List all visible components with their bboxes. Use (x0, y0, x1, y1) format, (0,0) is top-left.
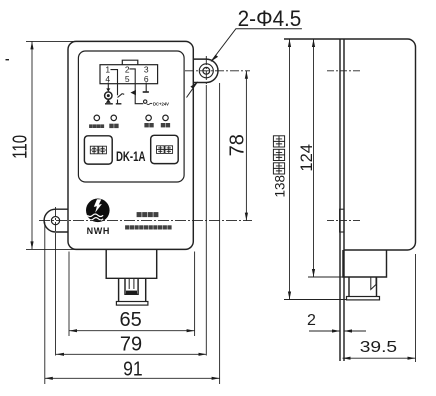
svg-text:DC+24V: DC+24V (153, 102, 169, 107)
svg-text:138: 138 (273, 175, 288, 198)
svg-text:3: 3 (144, 64, 149, 74)
svg-text:65: 65 (119, 309, 141, 331)
svg-text:110: 110 (8, 135, 31, 159)
svg-text:4: 4 (105, 74, 110, 84)
svg-text:78: 78 (227, 134, 249, 156)
svg-text:DK-1A: DK-1A (116, 148, 146, 164)
svg-text:79: 79 (120, 334, 142, 356)
svg-text:5: 5 (125, 74, 130, 84)
svg-text:39.5: 39.5 (360, 338, 398, 356)
svg-text:2: 2 (307, 312, 316, 329)
svg-text:NWH: NWH (87, 226, 110, 236)
svg-text:124: 124 (298, 144, 316, 172)
svg-text:91: 91 (123, 357, 143, 379)
svg-text:2-Φ4.5: 2-Φ4.5 (238, 6, 302, 31)
svg-text:6: 6 (144, 74, 149, 84)
